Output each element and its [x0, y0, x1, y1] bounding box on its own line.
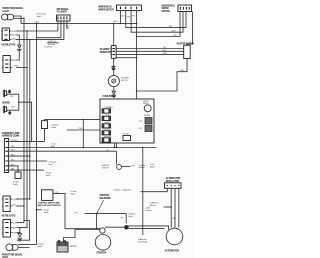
wire regulator pin2: [170, 188, 172, 227]
wire flasher pin1 down: [57, 21, 59, 31]
svg-text:ALTERNATOR: ALTERNATOR: [166, 177, 181, 180]
wire C2 pin1 to ground G1: [16, 53, 19, 61]
wire vertical H x=83.3: [82, 119, 84, 147]
svg-text:STARTER: STARTER: [96, 252, 106, 255]
wire L2 blk stub: [18, 247, 29, 249]
svg-text:RESISTOR: RESISTOR: [100, 52, 111, 54]
node on vertical C x=27: [26, 30, 27, 31]
node: [29, 198, 30, 199]
node pin4: [29, 155, 30, 156]
wire flasher pin2 left branch: [37, 21, 61, 38]
node solenoid feed: [96, 228, 97, 229]
wire PNK to fuse panel: [67, 129, 100, 131]
svg-text:FORWARD LAMP: FORWARD LAMP: [2, 132, 20, 135]
connector headlight RH upper C3: [3, 196, 13, 212]
wire blower 4th to relay drop: [116, 57, 137, 59]
svg-text:Switch: Switch: [37, 15, 42, 18]
node horn junction: [18, 101, 20, 103]
label WINDSHIELD WIPER SWITCH: [162, 5, 176, 13]
connector headlight LH upper C1: [2, 28, 12, 41]
wire solenoid terminal drop: [96, 213, 98, 228]
wire wiper switch feed to heater: [187, 12, 193, 46]
heater switch box: [184, 45, 191, 58]
fuse RADIO: [102, 121, 110, 128]
svg-text:Switch: Switch: [128, 215, 133, 218]
wire firewall pin6 to body conn: [11, 166, 18, 172]
lamp L1 park/turn front LH: [2, 14, 14, 20]
junction stud R: [124, 225, 129, 230]
label To Stoplight Switch: [70, 190, 76, 195]
svg-text:CONTROL SAFETY AND: CONTROL SAFETY AND: [38, 202, 60, 205]
label WINDSHIELD WIPER MOTOR: [98, 7, 114, 12]
lamp L2 park/turn lower: [6, 244, 18, 251]
connector firewall C100: [4, 139, 10, 173]
svg-text:PPL: PPL: [121, 218, 124, 220]
wire link leads: [44, 119, 46, 141]
svg-text:WIPER MOTOR: WIPER MOTOR: [98, 9, 114, 11]
svg-text:LIGHT: LIGHT: [2, 11, 9, 13]
label To LH Park/Turn Light: [44, 41, 56, 48]
fuse W/WIPER: [102, 107, 113, 113]
node blower tap: [136, 57, 137, 58]
wire C1 pin3 to flasher pin3: [16, 39, 64, 41]
wire vertical D x=29.8: [29, 40, 31, 199]
svg-text:L-BLU: L-BLU: [65, 26, 70, 28]
label BLOWER MOTOR: [121, 77, 129, 81]
wire regulator pin4: [178, 188, 180, 227]
horn H2: [3, 106, 11, 114]
label STARTER SOLENOID: [99, 194, 110, 200]
node panel feed tap: [83, 119, 84, 120]
wire flasher pin4 stub: [67, 21, 69, 28]
ground G1: [17, 45, 22, 52]
wire vertical A x=24: [23, 18, 25, 222]
fuse panel box: [100, 99, 154, 143]
wire C3 pin2: [16, 205, 24, 207]
svg-text:ALTERNATOR: ALTERNATOR: [165, 250, 180, 253]
svg-text:Switch: Switch: [51, 126, 56, 129]
wire regulator pin1 to ignition lead: [141, 188, 168, 191]
label To Light Switch branch: [44, 209, 50, 214]
connector body feed: [15, 172, 21, 179]
wire stoplight branch: [37, 209, 43, 211]
wire feed drop to blower: [113, 23, 115, 45]
wire panel feed y=119.4: [45, 118, 101, 120]
label PARK/TURN SIGNAL LIGHT (bottom): [2, 253, 23, 258]
svg-text:PPL: PPL: [106, 150, 109, 152]
wire wiper pin1 joins feed: [120, 14, 122, 24]
label To Lights: [46, 171, 52, 176]
wire to motor: [113, 70, 115, 76]
wiper motor connector: [117, 5, 142, 11]
wire blower to heater YEL: [116, 48, 184, 50]
solenoid S1: [100, 228, 105, 233]
svg-text:SOLENOID: SOLENOID: [99, 198, 110, 200]
node loop: [136, 90, 137, 91]
hot terminal box: [123, 136, 131, 141]
node pin1 x36.5: [36, 141, 37, 142]
svg-text:PPL: PPL: [75, 213, 78, 215]
svg-text:To Alternator: To Alternator: [138, 238, 147, 241]
label To Ignition Switch (R): [128, 213, 135, 218]
wire panel drops to bus: [115, 143, 117, 148]
wire firewall pin5: [11, 160, 47, 162]
wire C4 pin2 to vertical C end: [17, 227, 27, 229]
svg-text:DIR SIGNAL: DIR SIGNAL: [57, 8, 70, 11]
svg-text:MOTOR: MOTOR: [121, 80, 128, 82]
wire firewall pin2 long bus: [11, 147, 157, 149]
horn H1: [3, 90, 11, 97]
wire R to alternator lower: [129, 228, 165, 230]
wire regulator pin3: [174, 188, 176, 227]
wire C2 pin2 to vertical C: [16, 67, 27, 69]
svg-text:BATTERY: BATTERY: [70, 245, 78, 248]
wire lamp to node B: [14, 17, 24, 19]
starter motor M1: [95, 235, 111, 251]
wire vertical C x=26.9: [26, 31, 28, 228]
label ACC relay above: [143, 101, 149, 105]
label BLOWER RESISTOR: [100, 49, 111, 54]
ground G3 blower: [111, 87, 116, 98]
svg-text:Switch: Switch: [13, 183, 18, 186]
svg-text:HORNS: HORNS: [2, 103, 10, 105]
connector headlight LH lower C2: [3, 56, 13, 73]
label To Directional Switch (top): [37, 13, 47, 18]
wire C1 pin2 to ground G1: [16, 35, 20, 45]
fusible link box: [42, 121, 48, 129]
wire C1 pin1 to flasher pin1: [17, 30, 58, 32]
label PPL wire: [75, 213, 78, 215]
arrow solenoid pointer: [97, 200, 103, 212]
horn relay K1: [144, 105, 151, 112]
label DIRECTIONAL FLASHER: [57, 8, 70, 14]
svg-text:HEADLIGHTS: HEADLIGHTS: [2, 215, 16, 218]
svg-text:PPL: PPL: [174, 35, 177, 37]
wire blower to heater ORN: [116, 54, 184, 56]
wire blower motor lead: [113, 58, 115, 66]
wire blower to heater L-BLU: [116, 50, 184, 52]
wire A branch to lamp feed: [17, 221, 30, 241]
wiper pin stubs: [121, 11, 137, 14]
label To Gauges: [49, 162, 57, 166]
svg-text:Blower: Blower: [150, 166, 155, 168]
svg-text:Starter Relay: Starter Relay: [138, 240, 147, 243]
node F top: [36, 23, 37, 24]
connector headlight RH lower C4: [3, 220, 13, 238]
svg-text:Solenoid: Solenoid: [138, 167, 144, 169]
svg-text:YEL: YEL: [163, 47, 166, 49]
svg-text:PPL: PPL: [132, 15, 135, 17]
wire ground drop: [19, 228, 21, 234]
breaker box 2: [145, 126, 152, 132]
wire long horizontal feed y=23.4: [21, 22, 137, 24]
node L-GRN junction: [26, 67, 27, 68]
inline connector blower: [112, 66, 115, 69]
wire C4 pin1 to vertical A end: [18, 222, 24, 224]
svg-text:FUSE PANEL: FUSE PANEL: [103, 95, 117, 98]
label To Alternator Indicator: [150, 201, 159, 206]
wire wiper pin2 to switch: [126, 12, 186, 28]
svg-text:HARNESS CONN: HARNESS CONN: [2, 135, 20, 138]
label To Light Switch: [13, 181, 19, 186]
wire indicator stub: [164, 206, 172, 208]
svg-text:PPL: PPL: [132, 165, 135, 167]
label To Junction: [51, 143, 57, 147]
blower resistor connector: [111, 46, 116, 59]
svg-text:Switch: Switch: [46, 174, 51, 177]
wire feed tap to switch: [137, 12, 180, 37]
node indicator: [171, 206, 172, 207]
label To Starter Solenoid: [138, 164, 145, 169]
svg-text:BACK-UP LIGHT SWITCH: BACK-UP LIGHT SWITCH: [38, 204, 61, 207]
svg-text:RELAY: RELAY: [143, 102, 149, 105]
node feed tap: [136, 36, 137, 37]
svg-text:BLOWER: BLOWER: [100, 49, 110, 51]
node main drop: [136, 23, 138, 25]
battery BT1: [57, 241, 68, 252]
svg-text:L-BLU: L-BLU: [162, 50, 167, 52]
label To Ignition Switch (PNK wire): [51, 124, 58, 129]
wire flasher pin3 down: [63, 21, 65, 40]
svg-text:SWITCH: SWITCH: [162, 11, 171, 13]
node bus taps: [114, 147, 115, 148]
wire lamp to vertical A: [14, 16, 21, 23]
node A branch: [23, 220, 24, 221]
switch box (control safety): [42, 190, 53, 201]
label IGNITION SWITCH: [102, 165, 110, 169]
node F stoplight branch: [36, 209, 37, 210]
svg-text:Switch: Switch: [44, 211, 49, 214]
ignition switch terminal: [117, 165, 122, 170]
regulator connector: [165, 183, 182, 189]
fuse LPS: [102, 115, 110, 121]
svg-text:Indicator: Indicator: [150, 204, 156, 207]
wire horn2: [7, 102, 19, 110]
wire solenoid to stud: [105, 226, 124, 228]
wire C3 pin1: [17, 198, 30, 200]
alternator G1: [166, 228, 183, 245]
wire control box to solenoid: [53, 194, 100, 229]
wire ignition out: [121, 165, 130, 167]
wire horn bus to drop: [19, 102, 32, 141]
node C end: [26, 227, 27, 228]
wire ignition feed drop: [116, 151, 118, 164]
label FORWARD HARNESS CONNECTOR: [2, 132, 20, 138]
wire firewall pin1: [11, 140, 45, 142]
node: [23, 205, 24, 206]
svg-text:WIPER: WIPER: [162, 8, 169, 10]
wire firewall pin7: [11, 169, 44, 171]
svg-text:Feed: Feed: [49, 164, 53, 166]
wiper switch box: [178, 5, 192, 12]
wire wiper pin3 to switch: [131, 12, 183, 33]
svg-text:L-BLU: L-BLU: [171, 31, 176, 33]
node horn drop bottom: [31, 141, 32, 142]
heater switch bottom loop BRN: [137, 59, 187, 92]
svg-text:Switch: Switch: [70, 193, 75, 196]
wire L2 feed: [18, 244, 36, 246]
label To Directional Switch (bottom): [38, 242, 45, 247]
svg-text:To Ignition — (gray) and —: To Ignition — (gray) and —: [113, 188, 132, 191]
svg-text:PARK/TURN SIGNAL: PARK/TURN SIGNAL: [2, 7, 23, 10]
wire firewall pin3 to ignition: [11, 150, 117, 152]
breaker box 1: [145, 118, 152, 125]
label ALTERNATOR REGULATOR: [166, 177, 181, 183]
fuse GAUGES: [102, 135, 112, 142]
svg-text:SWITCH: SWITCH: [102, 167, 109, 169]
label PARK/TURN SIGNAL LIGHT (top): [2, 7, 23, 13]
wire battery cable: [64, 230, 100, 243]
svg-text:WINDSHIELD: WINDSHIELD: [98, 7, 112, 9]
wire C4 pin3 stub: [17, 232, 21, 234]
node H bottom: [83, 147, 84, 148]
svg-text:FLASHER: FLASHER: [57, 11, 67, 14]
svg-text:STARTER: STARTER: [99, 194, 109, 197]
svg-text:HEADLIGHTS: HEADLIGHTS: [2, 43, 16, 46]
node solenoid terminal: [96, 213, 98, 215]
svg-text:FLSHR: FLSHR: [144, 115, 150, 117]
svg-text:To RH Park: To RH Park: [48, 41, 56, 43]
wire horn1: [7, 94, 19, 102]
node feed drop: [113, 23, 114, 24]
node B junction: [23, 18, 24, 19]
svg-text:To LH Park: To LH Park: [44, 47, 52, 49]
label CONTROL SAFETY AND BACK-UP LIGHT SWITCH: [38, 202, 61, 208]
svg-text:PPL: PPL: [55, 192, 58, 194]
wire main feed drop to panel: [136, 14, 138, 99]
fuse DIR SIG: [102, 129, 110, 135]
wire firewall pin4: [11, 155, 30, 157]
label To Heater stub: [150, 163, 155, 168]
label To Alternator Starter Relay: [138, 238, 147, 244]
svg-text:WINDSHIELD: WINDSHIELD: [162, 5, 176, 7]
wire R to alternator upper: [129, 226, 169, 230]
wire vertical F x=36.5: [36, 23, 38, 244]
svg-text:Resistor: Resistor: [146, 209, 152, 212]
label To Alternator wire: [146, 206, 152, 211]
blower motor M2: [108, 75, 119, 86]
wire ignition to R terminal: [85, 213, 127, 223]
ground G2: [17, 234, 22, 241]
node pin1: [120, 23, 121, 24]
flasher box U2: [57, 15, 71, 21]
wire bat drop from fuse bus: [142, 148, 144, 236]
node TAN junctions: [23, 39, 24, 40]
svg-text:Switch: Switch: [38, 245, 43, 248]
wire to LH park stub: [47, 42, 59, 44]
svg-text:L-BLU: L-BLU: [35, 21, 40, 23]
